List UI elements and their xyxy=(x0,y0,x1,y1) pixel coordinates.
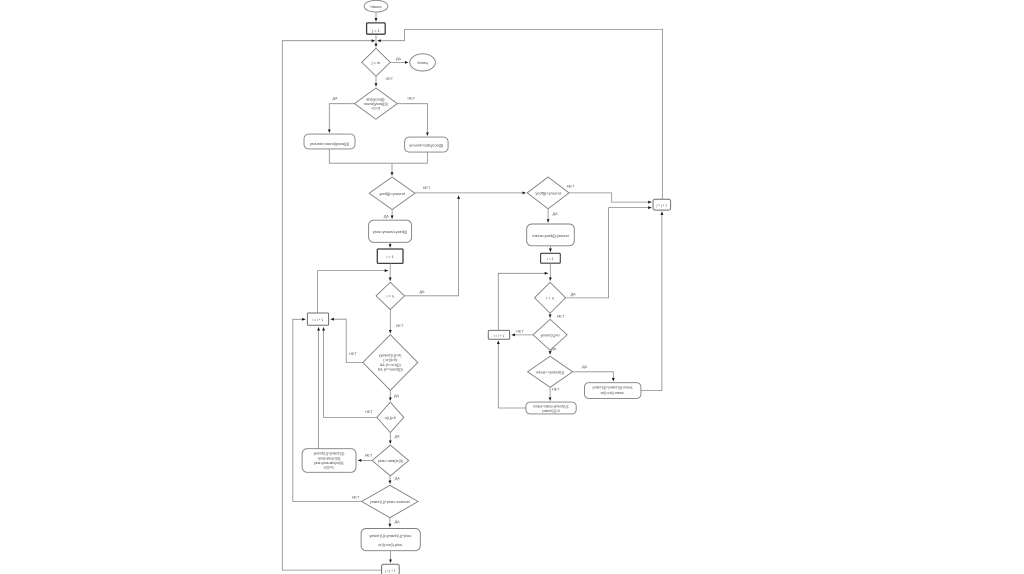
svg-text:ymknt'(i,j)>0: ymknt'(i,j)>0 xyxy=(541,333,560,337)
svg-text:abs(ycos(j)-: abs(ycos(j)- xyxy=(366,97,386,101)
svg-text:Начало: Начало xyxy=(370,5,381,9)
decision ymknt(i,j)+plus<=nubmax xyxy=(362,485,418,517)
wire big-condition NET to i=i+1 right edge xyxy=(331,319,363,362)
process ymknt-=minus; cr-=minus xyxy=(585,383,641,399)
process yround=round(ycos(j)) xyxy=(304,134,355,149)
svg-text:ycdf(j)>yround: ycdf(j)>yround xyxy=(379,191,404,196)
svg-text:ДА: ДА xyxy=(419,290,425,294)
svg-text:ДА: ДА xyxy=(384,214,390,218)
wire i=1 right to decision i=n right xyxy=(549,263,551,281)
svg-text:ДА: ДА xyxy=(552,212,558,216)
svg-text:cr(i)=0;: cr(i)=0; xyxy=(324,466,335,470)
wire ycdf< DA to minus rect xyxy=(547,209,549,223)
wire i=n-right NET to ymknt>0 decision xyxy=(549,313,551,317)
svg-text:НЕТ: НЕТ xyxy=(407,97,415,101)
wire abs NET to yround=ceil xyxy=(397,104,427,136)
wire u NET to i=i+1 bottom xyxy=(324,327,377,417)
wire yround=round down to merge xyxy=(329,149,392,163)
wire nubmax DA to plus assign rect xyxy=(389,518,391,527)
terminator START (Nachalo) xyxy=(364,0,388,12)
svg-text:+plus-abs(cr(i));: +plus-abs(cr(i)); xyxy=(317,456,341,460)
svg-text:НЕТ: НЕТ xyxy=(349,352,357,356)
decision ymknt'(i,j)>0 xyxy=(533,319,567,350)
wire loop-return left from bottom j=j+1 to top junction xyxy=(282,41,381,570)
svg-text:ymknt'(i,j)=ymknt'(i,j): ymknt'(i,j)=ymknt'(i,j) xyxy=(314,452,345,456)
decision minus>=ymknt'(i,j) xyxy=(528,356,573,387)
wire ycdf< NET to right j=j+1 upper xyxy=(569,193,652,202)
process j = j + 1 (right) xyxy=(653,199,671,210)
process i = 1 (right) xyxy=(541,253,561,263)
svg-text:ДА: ДА xyxy=(570,292,576,296)
svg-text:ДА: ДА xyxy=(394,394,400,398)
svg-text:i = i + 1: i = i + 1 xyxy=(313,318,324,322)
process ymknt+=plus; cr-=plus xyxy=(361,529,420,551)
decision i = n (left) xyxy=(376,282,404,309)
svg-text:minus=minus-ymknt'(i,j);: minus=minus-ymknt'(i,j); xyxy=(533,404,569,408)
decision (ymknt(i,j)>0)(cr(i)>0) && ranges xyxy=(363,335,418,391)
svg-text:j = 1: j = 1 xyxy=(371,28,380,33)
process plus=yround-ycell(j) xyxy=(369,220,412,242)
process minus=minus-ymknt'(i,j); ymknt=0 xyxy=(526,402,576,414)
svg-text:НЕТ: НЕТ xyxy=(423,186,431,190)
process i = i + 1 (right) xyxy=(488,330,509,339)
svg-text:plus>=abs(cr(i)): plus>=abs(cr(i)) xyxy=(378,459,403,463)
wire i=i+1 left top to i=n junction xyxy=(318,271,388,313)
wire ymknt>0 DA to minus>= decision xyxy=(549,350,551,354)
wire bottom right rect to i=i+1 right bottom xyxy=(498,341,526,408)
decision j = m xyxy=(362,48,390,76)
wire yround=ceil down to merge xyxy=(392,152,427,163)
svg-text:i = 1: i = 1 xyxy=(547,257,554,261)
wire ymknt>0 NET to i=i+1 right edge xyxy=(512,334,534,336)
svg-text:ymknt'(i,j)+plus<=nubmax: ymknt'(i,j)+plus<=nubmax xyxy=(370,500,410,504)
wire big-condition DA to u decision xyxy=(389,390,391,400)
svg-text:ДА: ДА xyxy=(582,365,588,369)
process i = i + 1 (left) xyxy=(307,313,328,325)
wire plus>=abs NET to big assign rect xyxy=(358,459,372,461)
svg-text:НЕТ: НЕТ xyxy=(516,329,524,333)
svg-text:ДА: ДА xyxy=(395,477,401,481)
decision plus>=abs(cr(i)) xyxy=(372,445,409,476)
svg-text:j = j + 1: j = j + 1 xyxy=(656,203,668,207)
svg-text:ДА: ДА xyxy=(551,347,557,351)
wire nubmax NET to i=i+1 left edge xyxy=(293,319,362,501)
svg-text:minus>=ymknt'(i,j): minus>=ymknt'(i,j) xyxy=(536,370,564,374)
svg-text:plus=yround-ycell(j): plus=yround-ycell(j) xyxy=(373,229,408,234)
wire minus assign to right j=j+1 bottom xyxy=(641,212,662,391)
process minus=ycell(j)-yround xyxy=(527,224,575,246)
process yround=ceil(ycos(j)) xyxy=(405,137,449,152)
svg-text:(ymknt'(i,j)>0): (ymknt'(i,j)>0) xyxy=(379,353,401,357)
wire i=1 to decision i=n left xyxy=(389,263,391,280)
wire i=i+1 right top to i=n junction xyxy=(498,273,548,330)
svg-text:yround=round(ycos(j)): yround=round(ycos(j)) xyxy=(310,141,350,146)
svg-text:j = j + 1: j = j + 1 xyxy=(384,569,396,573)
svg-text:НЕТ: НЕТ xyxy=(365,453,373,457)
svg-text:j = m: j = m xyxy=(371,60,381,65)
wire abs DA to yround=round xyxy=(329,104,354,133)
svg-text:i = 1: i = 1 xyxy=(386,255,393,259)
process j = j + 1 (bottom) xyxy=(382,564,400,574)
svg-text:НЕТ: НЕТ xyxy=(365,410,373,414)
svg-text:ДА: ДА xyxy=(394,520,400,524)
svg-text:( cr(i)>0): ( cr(i)>0) xyxy=(383,358,397,362)
wire j=m NET to decision abs xyxy=(375,76,377,86)
svg-text:Конец: Конец xyxy=(418,61,428,65)
svg-text:НЕТ: НЕТ xyxy=(385,77,393,81)
svg-text:i = n: i = n xyxy=(386,293,394,298)
wire START to j=1 xyxy=(375,12,377,21)
svg-text:НЕТ: НЕТ xyxy=(567,185,575,189)
wire minus rect to i=1 right xyxy=(549,246,551,252)
decision i = n (right) xyxy=(535,282,566,313)
svg-text:НЕТ: НЕТ xyxy=(396,324,404,328)
wire merge down to decision ycdf>yround xyxy=(391,163,393,175)
svg-text:НЕТ: НЕТ xyxy=(557,314,565,318)
decision abs(ycos(j)-round(ycos(j)))<0.01 xyxy=(355,88,398,119)
svg-text:i = n: i = n xyxy=(546,295,554,300)
svg-text:minus=ycell(j)-yround: minus=ycell(j)-yround xyxy=(532,234,568,238)
wire loop-return right from right j=j+1 to top junction xyxy=(378,29,663,199)
svg-text:ymknt'(i,j)=ymknt'(i,j)-minus;: ymknt'(i,j)=ymknt'(i,j)-minus; xyxy=(592,386,633,390)
svg-text:plus=plus-abs(cr(i));: plus=plus-abs(cr(i)); xyxy=(314,461,344,465)
wire j=m DA to END xyxy=(390,61,408,63)
process j = 1 xyxy=(367,23,386,34)
svg-text:round(ycos(j))): round(ycos(j))) xyxy=(364,102,388,106)
wire minus>= DA to minus assign rect xyxy=(573,372,614,381)
svg-text:ycdf(j)<yround: ycdf(j)<yround xyxy=(535,190,560,195)
svg-text:yround=ceil(ycos(j)): yround=ceil(ycos(j)) xyxy=(409,142,444,147)
svg-text:cr(i)=cr(i)-plus.: cr(i)=cr(i)-plus. xyxy=(378,543,403,547)
svg-text:u(i,j)=0: u(i,j)=0 xyxy=(385,416,396,420)
decision ycdf(j)<yround xyxy=(527,177,569,209)
svg-text:НЕТ: НЕТ xyxy=(352,495,360,499)
wire plus>=abs DA to nubmax decision xyxy=(389,476,391,484)
wire i=n-left DA up to ycdf-net line xyxy=(405,196,459,296)
svg-text:i = i + 1: i = i + 1 xyxy=(494,334,505,338)
wire plus rect to i=1 xyxy=(389,242,391,247)
terminator END (Konec) xyxy=(410,54,436,71)
wire i=n-right DA to right j=j+1 lower xyxy=(566,208,652,298)
svg-text:ДА: ДА xyxy=(394,434,400,438)
wire big assign rect up to i=i+1 bottom xyxy=(318,327,320,448)
svg-text:&& (i<=uend(j)): && (i<=uend(j)) xyxy=(378,368,403,372)
wire minus>= NET to bottom right rect xyxy=(549,387,551,400)
wire plus assign to j=j+1 bottom xyxy=(390,551,392,563)
svg-text:ymknt'(i,j)=ymknt'(i,j)+plus;: ymknt'(i,j)=ymknt'(i,j)+plus; xyxy=(370,534,412,538)
wire ycdf> NET to decision ycdf< xyxy=(415,192,526,194)
decision ycdf(j)>yround xyxy=(369,177,415,210)
svg-text:ymknt'(i,j)=0: ymknt'(i,j)=0 xyxy=(542,409,560,413)
wire j=1 to decision j=m xyxy=(375,35,377,47)
svg-text:&& (i>=u1(j)): && (i>=u1(j)) xyxy=(380,363,401,367)
svg-text:ДА: ДА xyxy=(396,57,402,61)
process ymknt+=plus-abs(cr) 4 lines xyxy=(302,449,356,473)
wire i=n-left NET to big condition xyxy=(389,310,391,334)
svg-text:cr(i)=cr(i)-minus.: cr(i)=cr(i)-minus. xyxy=(601,391,625,395)
svg-text:ДА: ДА xyxy=(332,97,338,101)
svg-text:<0.01: <0.01 xyxy=(371,107,380,111)
wire ycdf> DA to plus=yround-ycell xyxy=(391,210,393,219)
decision u(i,j)=0 xyxy=(377,402,404,432)
wire u DA to plus>=abs decision xyxy=(389,433,391,444)
svg-text:НЕТ: НЕТ xyxy=(552,388,560,392)
process i = 1 (left) xyxy=(377,249,403,263)
